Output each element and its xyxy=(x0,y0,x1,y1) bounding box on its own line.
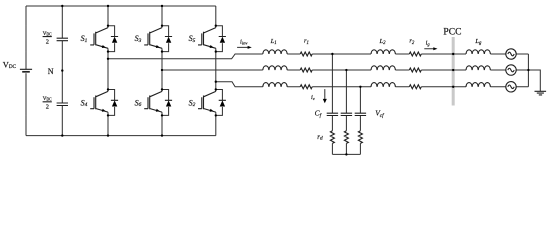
svg-text:PCC: PCC xyxy=(443,27,461,38)
svg-text:VDC: VDC xyxy=(43,31,52,37)
svg-text:N: N xyxy=(48,67,54,76)
svg-text:iinv: iinv xyxy=(240,38,247,45)
svg-text:VDC: VDC xyxy=(43,96,52,102)
svg-text:2: 2 xyxy=(46,104,49,111)
svg-text:2: 2 xyxy=(46,38,49,45)
